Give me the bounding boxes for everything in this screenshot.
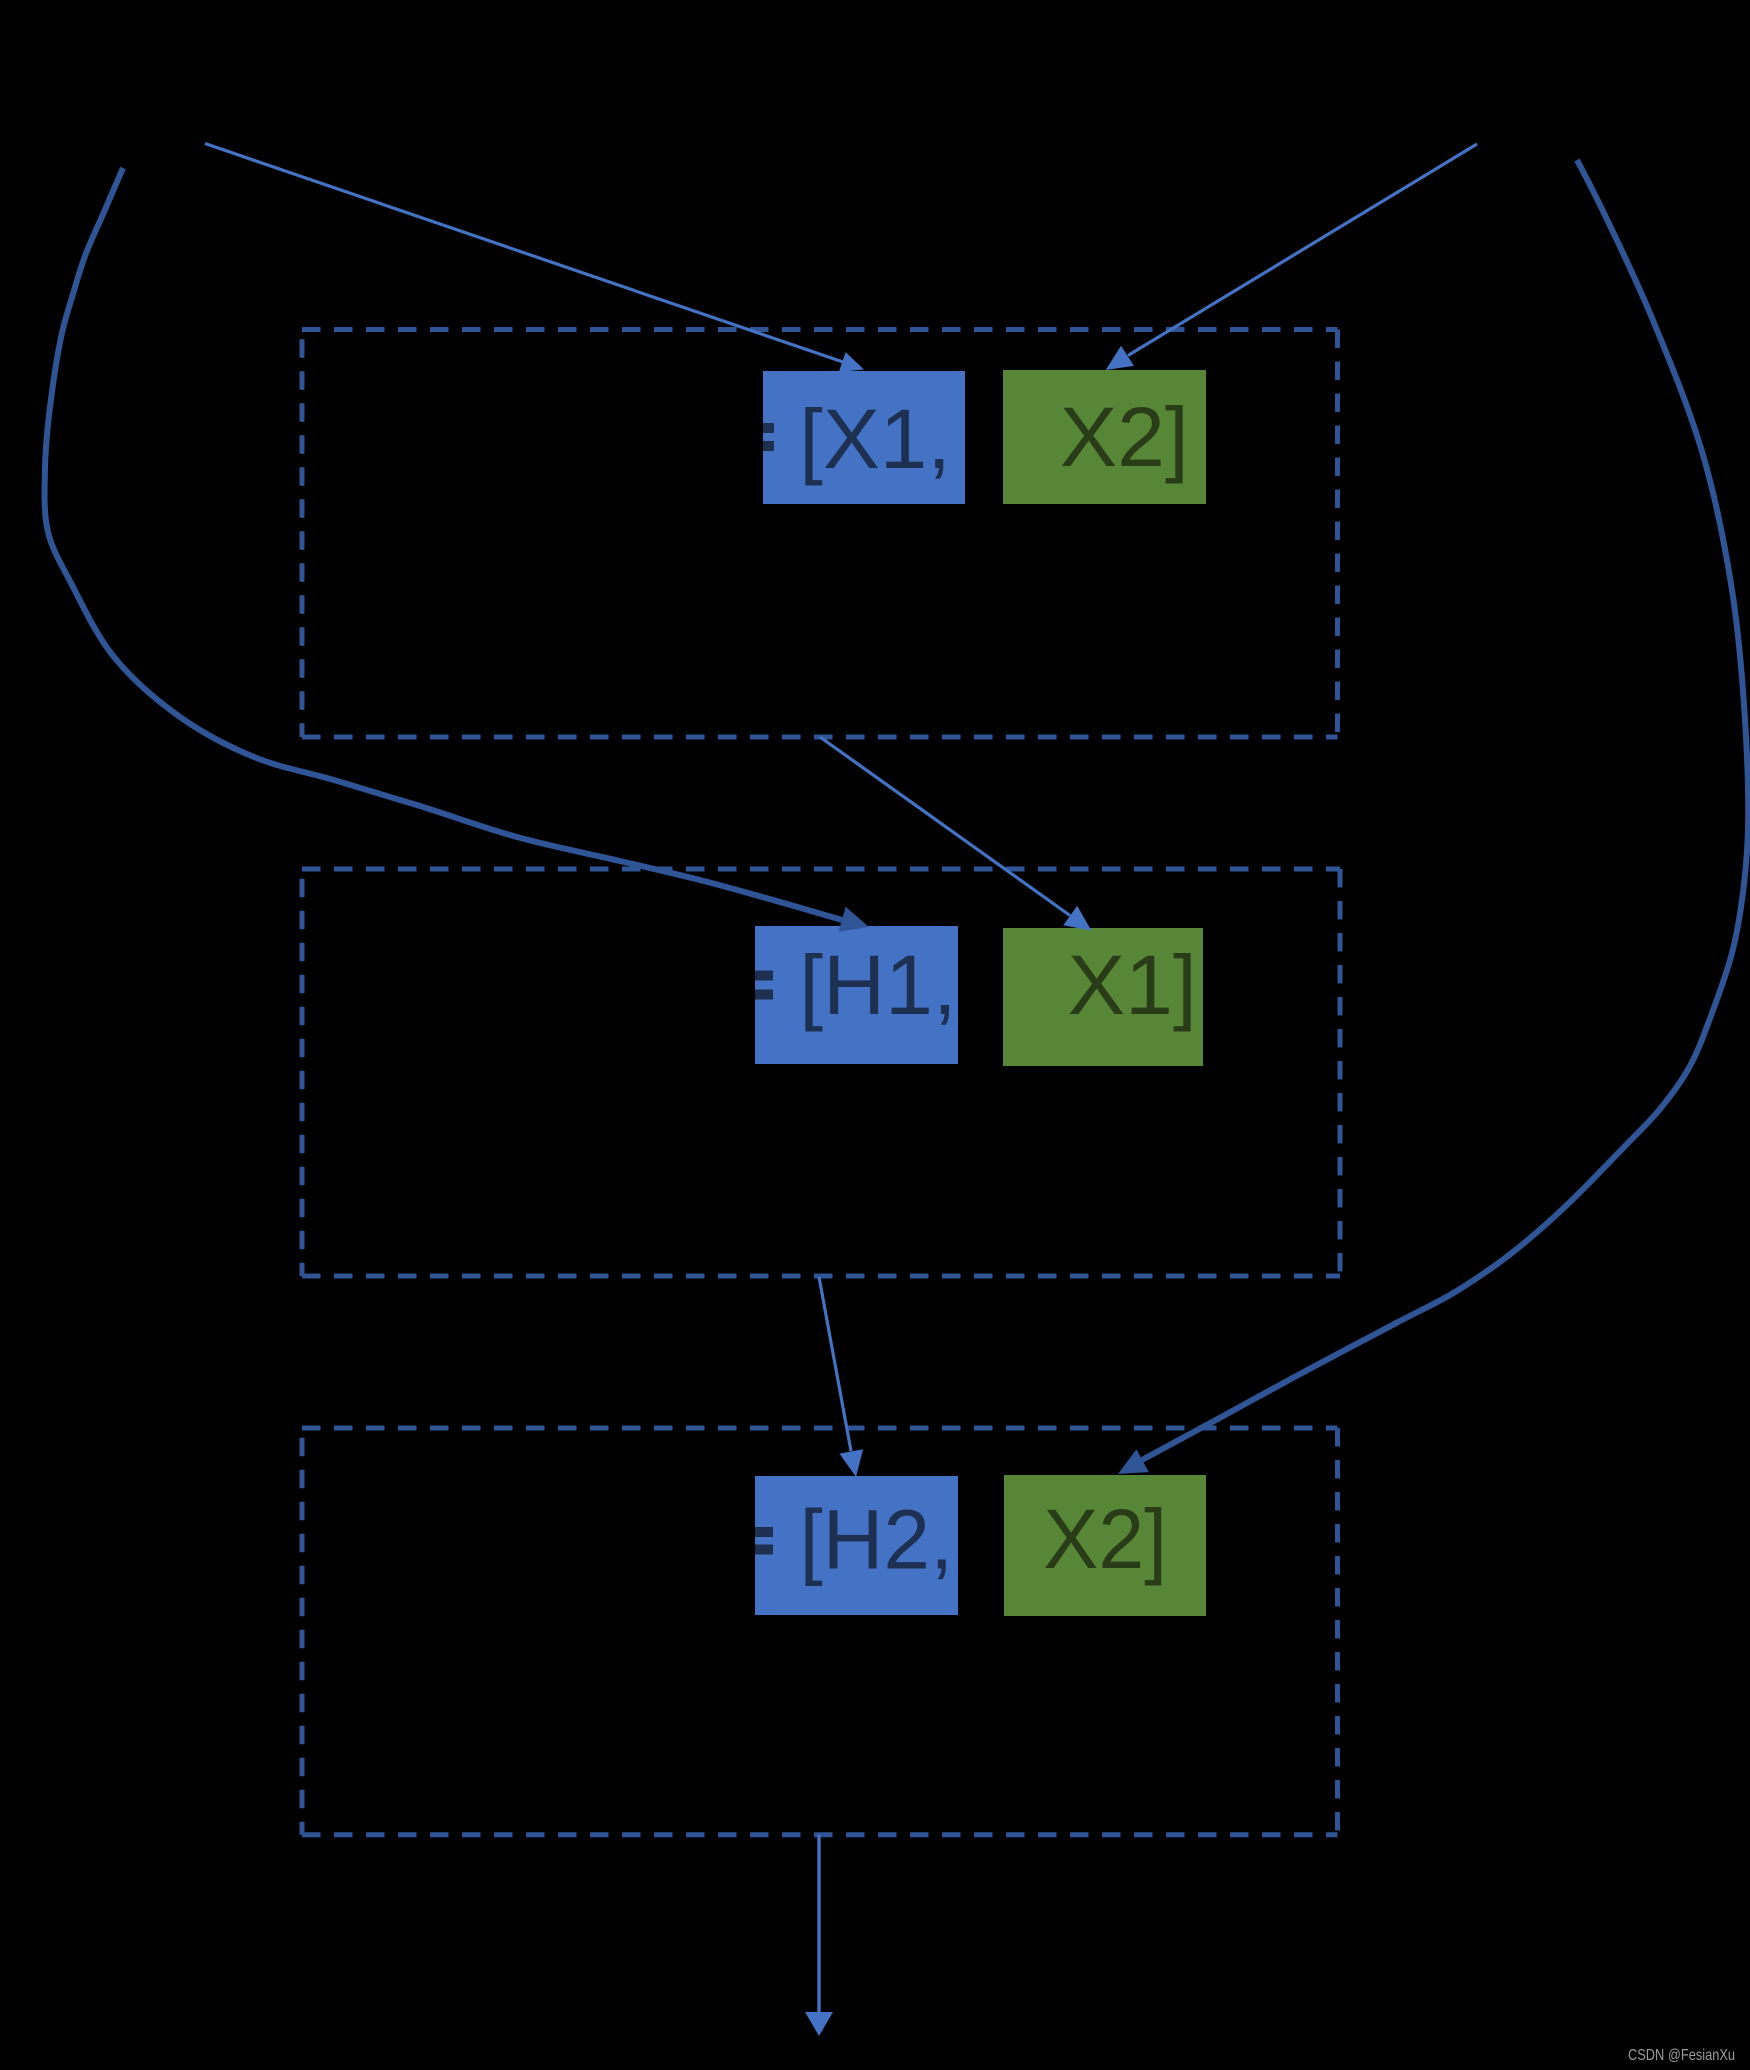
svg-text:[H1,: [H1, [799,938,957,1032]
blue box row2 [755,926,958,1064]
green box row2 [1003,928,1203,1066]
svg-text:X1]: X1] [1068,938,1197,1032]
dashed container row 2 [302,867,1340,872]
svg-text:CSDN @FesianXu: CSDN @FesianXu [1628,2047,1735,2064]
thick curve right [1142,160,1748,1460]
equals sliver row3 [755,1527,773,1537]
equals sliver row2 [755,971,773,981]
svg-text:X2]: X2] [1043,1492,1167,1586]
thin arrow box2 to blue row3 [819,1277,851,1451]
svg-text:[X1,: [X1, [799,392,951,486]
thin arrow into blue row1 [205,144,843,363]
blue box row3 [755,1476,958,1615]
dashed container row 1 [302,327,1338,332]
blue box row1 [763,371,965,504]
equals sliver row1 [763,423,774,433]
svg-text:X2]: X2] [1060,390,1189,484]
thin arrow box1 to green row2 [820,737,1070,916]
thick curve left [45,168,842,920]
dashed container row 3 [302,1426,1338,1431]
green box row1 [1003,370,1206,504]
thin arrow into green row1 [1128,144,1477,356]
svg-text:[H2,: [H2, [800,1493,954,1587]
bottom output arrow [817,1835,820,2012]
green box row3 [1004,1475,1206,1616]
